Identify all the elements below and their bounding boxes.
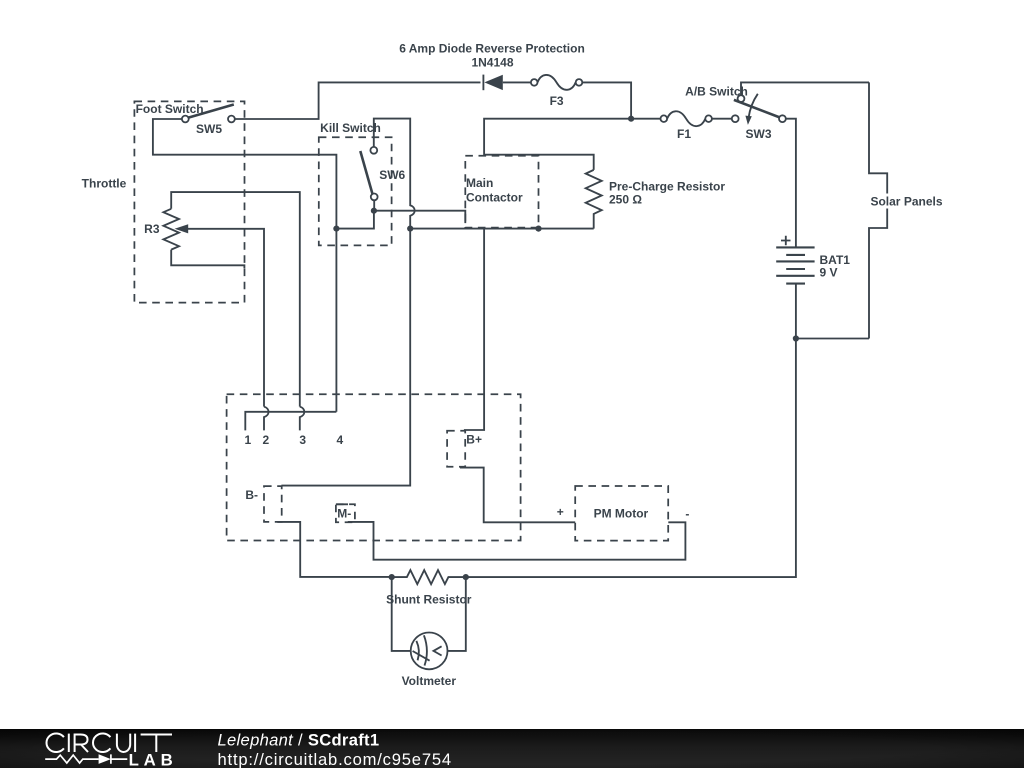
wire: pin 2 hop and stub bbox=[264, 407, 269, 431]
resistor Pre-Charge zigzag bbox=[586, 170, 602, 229]
wire: junction down and left bbox=[336, 211, 374, 229]
wire: diode to fuse F3 bbox=[503, 81, 531, 83]
svg-text:9 V: 9 V bbox=[820, 266, 838, 280]
wire: B- bottom to rail bbox=[277, 522, 391, 577]
svg-text:SW3: SW3 bbox=[745, 127, 771, 141]
terminal B+ dashed box bbox=[447, 431, 465, 467]
svg-text:Contactor: Contactor bbox=[466, 191, 523, 205]
voltmeter gauge arcs bbox=[424, 635, 427, 665]
wire: contactor bottom down to B+ bbox=[464, 229, 484, 430]
CircuitLab logo resistor-diode squiggle bbox=[45, 755, 98, 763]
svg-text:M-: M- bbox=[337, 506, 351, 520]
switch SW6 terminals bbox=[370, 147, 377, 154]
svg-text:B-: B- bbox=[245, 488, 258, 502]
wire: F1 to SW3 throw bbox=[712, 118, 732, 120]
battery BAT1 bbox=[776, 247, 814, 283]
svg-text:F1: F1 bbox=[677, 127, 691, 141]
node: shunt right junction bbox=[463, 574, 469, 580]
node: junction on long vertical bbox=[407, 226, 413, 232]
kill switch enclosure dashed box bbox=[319, 137, 392, 245]
node: junction at contactor box edge bbox=[535, 226, 541, 232]
node: battery/solar junction bbox=[793, 335, 799, 341]
wire: junction right to contactor coil stub bbox=[374, 211, 465, 223]
wire: R3 bottom lead bbox=[171, 250, 244, 269]
svg-text:Voltmeter: Voltmeter bbox=[402, 674, 457, 688]
controller enclosure big dashed box bbox=[227, 394, 521, 540]
switch SW3 pole terminal bbox=[779, 115, 786, 122]
potentiometer R3 zigzag bbox=[163, 209, 179, 250]
switch SW5 lever bbox=[188, 105, 233, 118]
switch SW5 terminals bbox=[182, 116, 189, 123]
svg-text:1N4148: 1N4148 bbox=[471, 56, 513, 70]
wire: voltmeter left lead bbox=[392, 577, 411, 651]
terminal B- dashed box bbox=[264, 486, 282, 522]
wire: voltmeter right lead bbox=[448, 577, 466, 651]
switch SW6 lever bbox=[360, 151, 372, 194]
PM motor dashed box bbox=[575, 486, 668, 541]
switch SW3 upper throw terminal bbox=[738, 95, 745, 102]
svg-text:Kill Switch: Kill Switch bbox=[320, 121, 381, 135]
wire: battery junction down to bottom rail bbox=[466, 339, 796, 578]
voltmeter needle bbox=[413, 651, 430, 661]
CircuitLab logo CIRCUIT stroked letters bbox=[46, 733, 172, 752]
svg-text:Solar Panels: Solar Panels bbox=[870, 195, 942, 209]
main contactor dashed box bbox=[465, 156, 538, 228]
fuse F1 bbox=[661, 115, 668, 122]
wire: SW5 left terminal loop down to pin row bbox=[153, 119, 337, 412]
voltmeter body circle bbox=[411, 633, 448, 670]
svg-text:LAB: LAB bbox=[129, 750, 178, 768]
wire: F1 junction left then down through contactor to pre-charge top bbox=[484, 119, 631, 170]
solar panels block outline bbox=[869, 82, 887, 338]
svg-text:Throttle: Throttle bbox=[82, 177, 127, 191]
svg-text:250 Ω: 250 Ω bbox=[609, 193, 642, 207]
wire: M- to PM motor minus bbox=[348, 522, 686, 560]
wire: SW6 top terminal up over and down to B- (long vertical with hop) bbox=[281, 119, 414, 486]
svg-text:1: 1 bbox=[245, 433, 252, 447]
potentiometer R3 top lead and wire to pin 3 bbox=[171, 192, 300, 407]
svg-text:2: 2 bbox=[262, 433, 269, 447]
svg-text:A/B Switch: A/B Switch bbox=[685, 84, 748, 98]
svg-text:3: 3 bbox=[299, 433, 306, 447]
switch SW3 lever bbox=[734, 100, 780, 118]
wire: battery bottom to junction bbox=[795, 284, 797, 339]
svg-text:Lelephant / SCdraft1: Lelephant / SCdraft1 bbox=[218, 731, 380, 750]
node: shunt left junction bbox=[389, 574, 395, 580]
diode D1 1N4148 cathode bar bbox=[482, 75, 484, 91]
wire: wiper to pin 2 bbox=[187, 229, 265, 407]
wire: pin row horizontal with pin 1 stub bbox=[245, 412, 336, 431]
svg-text:-: - bbox=[685, 507, 689, 521]
svg-text:SW5: SW5 bbox=[196, 122, 222, 136]
label Solar Panels bbox=[866, 194, 947, 209]
wire: SW5 right terminal up to diode rail bbox=[235, 82, 481, 119]
battery BAT1 plus sign bbox=[781, 236, 791, 245]
svg-text:Main: Main bbox=[466, 176, 493, 190]
resistor Shunt zigzag bbox=[392, 570, 466, 584]
wire: SW3 pole to battery top bbox=[786, 119, 796, 248]
wire: junction to fuse F1 bbox=[631, 118, 660, 120]
potentiometer R3 wiper arrow bbox=[175, 224, 189, 233]
throttle enclosure dashed box bbox=[134, 101, 244, 302]
switch SW3 actuation arrow bbox=[749, 94, 758, 118]
svg-text:+: + bbox=[557, 505, 564, 519]
svg-text:B+: B+ bbox=[466, 432, 482, 446]
svg-text:R3: R3 bbox=[144, 222, 160, 236]
wire: B+ out bottom to PM motor plus bbox=[460, 468, 575, 523]
terminal M- dashed box bbox=[336, 504, 355, 522]
svg-text:Pre-Charge Resistor: Pre-Charge Resistor bbox=[609, 180, 725, 194]
wire: SW3 upper throw up and right to solar panels bbox=[741, 82, 869, 95]
wire: F3 to junction, down to F1 rail bbox=[582, 82, 631, 118]
node: junction F3/F1 bbox=[628, 116, 634, 122]
wire: SW6 bottom to junction bbox=[373, 200, 375, 210]
svg-text:F3: F3 bbox=[550, 94, 564, 108]
diode D1 triangle bbox=[484, 75, 502, 90]
svg-text:6 Amp Diode Reverse Protection: 6 Amp Diode Reverse Protection bbox=[399, 42, 585, 56]
svg-text:PM Motor: PM Motor bbox=[594, 506, 649, 520]
svg-text:http://circuitlab.com/c95e754: http://circuitlab.com/c95e754 bbox=[218, 750, 452, 768]
svg-text:Foot Switch: Foot Switch bbox=[136, 102, 204, 116]
wire: junction to solar panels bottom bbox=[796, 338, 869, 340]
node: SW6 bottom junction bbox=[371, 208, 377, 214]
fuse F3 bbox=[531, 79, 538, 86]
svg-text:Shunt Resistor: Shunt Resistor bbox=[386, 593, 472, 607]
terminal M- solid corner bbox=[337, 503, 349, 505]
wire: pin 3 hop and stub bbox=[300, 407, 305, 431]
wire: junction right along contactor bottom to pre-charge resistor bbox=[410, 228, 594, 230]
switch SW3 A/B (SPDT) left throw terminal bbox=[732, 115, 739, 122]
voltmeter less-than mark bbox=[434, 646, 442, 655]
svg-text:SW6: SW6 bbox=[379, 168, 405, 182]
svg-text:4: 4 bbox=[337, 433, 344, 447]
node: junction with SW5 net bbox=[333, 226, 339, 232]
